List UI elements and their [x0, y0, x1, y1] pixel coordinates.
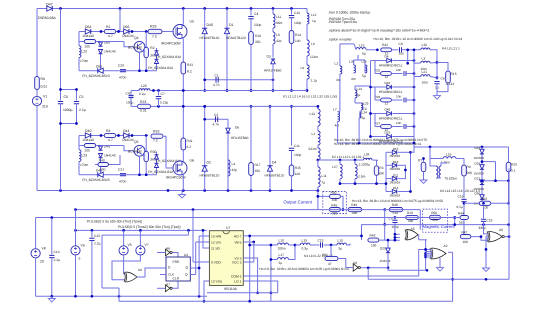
svg-text:HFA06TB120: HFA06TB120: [200, 174, 220, 178]
svg-text:C25: C25: [487, 219, 493, 223]
svg-text:D5E60-06A: D5E60-06A: [38, 16, 56, 20]
svg-text:0.01: 0.01: [140, 109, 147, 113]
svg-text:U7: U7: [226, 226, 230, 230]
svg-text:200: 200: [85, 149, 91, 153]
svg-text:Q: Q: [185, 273, 188, 277]
svg-text:10n: 10n: [399, 52, 405, 56]
svg-text:BCW60B: BCW60B: [128, 46, 142, 50]
svg-text:IR2110A: IR2110A: [224, 287, 238, 291]
svg-text:L28: L28: [364, 153, 370, 157]
svg-text:FH_BZX884-B18: FH_BZX884-B18: [148, 170, 173, 174]
svg-text:D66: D66: [123, 25, 129, 29]
svg-text:170m: 170m: [80, 59, 89, 63]
svg-text:HFA06TB120: HFA06TB120: [265, 174, 285, 178]
svg-text:L30: L30: [422, 43, 428, 47]
svg-text:50K: 50K: [378, 171, 385, 175]
svg-text:100m: 100m: [278, 247, 286, 251]
svg-text:1N4148: 1N4148: [82, 138, 94, 142]
svg-text:0.2µ: 0.2µ: [139, 92, 146, 96]
svg-text:PRE: PRE: [173, 260, 181, 264]
svg-text:C13: C13: [318, 238, 324, 242]
svg-text:10n: 10n: [396, 95, 401, 99]
svg-text:FH_BZX585-B3V5: FH_BZX585-B3V5: [82, 178, 109, 182]
svg-text:L11: L11: [321, 174, 326, 178]
svg-text:200: 200: [100, 167, 106, 171]
svg-text:100: 100: [295, 39, 301, 43]
svg-text:L1: L1: [312, 132, 316, 136]
svg-text:L2: L2: [335, 62, 339, 66]
svg-text:R7: R7: [418, 159, 422, 163]
svg-text:D6: D6: [235, 126, 239, 130]
svg-text:HFA08NC48C1L: HFA08NC48C1L: [379, 63, 403, 67]
svg-text:1N4148: 1N4148: [380, 259, 391, 263]
svg-text:R1: R1: [106, 25, 111, 29]
svg-text:47: 47: [328, 262, 332, 266]
svg-text:L3: L3: [422, 57, 426, 61]
svg-text:A6: A6: [166, 247, 170, 251]
svg-text:2.2µ: 2.2µ: [94, 242, 101, 246]
svg-text:5µ: 5µ: [357, 93, 361, 97]
svg-text:9 VDD: 9 VDD: [211, 260, 221, 264]
svg-text:C21: C21: [118, 168, 124, 172]
svg-text:13 VSS: 13 VSS: [211, 279, 223, 283]
svg-text:4.7n: 4.7n: [213, 83, 220, 87]
svg-text:R14: R14: [295, 33, 301, 37]
svg-text:C11: C11: [294, 144, 300, 148]
svg-text:CLR: CLR: [173, 277, 180, 281]
svg-text:R45: R45: [331, 203, 337, 207]
svg-text:5µ: 5µ: [362, 74, 366, 78]
svg-text:1N5819: 1N5819: [389, 167, 400, 171]
svg-text:0.01: 0.01: [41, 85, 48, 89]
svg-text:.options abstol=1e-9 chgtol=1e: .options abstol=1e-9 chgtol=1e-9 maxstep…: [328, 29, 429, 33]
svg-text:L24: L24: [362, 111, 368, 115]
svg-text:COM 2: COM 2: [231, 274, 242, 278]
svg-text:HFA06TB120: HFA06TB120: [226, 36, 246, 40]
svg-text:R2: R2: [150, 46, 154, 50]
svg-text:Q: Q: [186, 266, 189, 270]
svg-text:1N4148: 1N4148: [104, 50, 116, 54]
svg-text:PULSE(0 5 {Tons2} 50n 50n {Ton: PULSE(0 5 {Tons2} 50n 50n {Ton} {Tpw}): [118, 225, 181, 229]
svg-text:1.1302µ: 1.1302µ: [359, 162, 371, 166]
svg-text:1000µ: 1000µ: [63, 108, 73, 112]
svg-text:VCC 3: VCC 3: [232, 260, 242, 264]
svg-text:400: 400: [352, 211, 358, 215]
svg-text:L14: L14: [357, 87, 363, 91]
svg-text:D21: D21: [393, 173, 399, 177]
svg-text:V5: V5: [128, 243, 132, 247]
svg-text:R16: R16: [255, 34, 261, 38]
svg-text:C3: C3: [79, 95, 84, 99]
svg-text:K4 L3 L21 1: K4 L3 L21 1: [442, 47, 460, 51]
svg-text:L19: L19: [302, 238, 308, 242]
svg-text:1N4148: 1N4148: [104, 154, 116, 158]
svg-text:L13: L13: [310, 112, 316, 116]
svg-text:1N4148: 1N4148: [122, 34, 134, 38]
svg-text:A3: A3: [353, 261, 357, 265]
svg-text:L6: L6: [301, 66, 305, 70]
svg-text:V1: V1: [43, 95, 47, 99]
svg-text:L11: L11: [276, 15, 281, 19]
svg-text:11 SD: 11 SD: [211, 246, 221, 250]
svg-text:D40: D40: [85, 129, 91, 133]
svg-text:R3: R3: [379, 166, 383, 170]
svg-text:100µ: 100µ: [126, 101, 134, 105]
svg-text:IRG4PC50W: IRG4PC50W: [161, 41, 181, 45]
svg-text:R10: R10: [407, 211, 413, 215]
svg-text:12 LIN: 12 LIN: [211, 240, 221, 244]
svg-text:C1: C1: [215, 74, 219, 78]
svg-text:1N5819: 1N5819: [389, 154, 400, 158]
svg-text:121m: 121m: [310, 55, 319, 59]
svg-text:4m: 4m: [335, 124, 340, 128]
svg-text:R11: R11: [187, 63, 193, 67]
svg-text:4.7n: 4.7n: [213, 123, 220, 127]
svg-text:D47: D47: [46, 3, 53, 7]
svg-text:D1: D1: [229, 23, 234, 27]
svg-text:L12: L12: [311, 13, 317, 17]
svg-text:BCW60B: BCW60B: [128, 150, 142, 154]
svg-text:L15: L15: [359, 44, 365, 48]
svg-text:100: 100: [295, 172, 301, 176]
svg-text:D16: D16: [393, 160, 399, 164]
svg-text:FH_BZX585-B5V3: FH_BZX585-B5V3: [82, 74, 109, 78]
svg-text:R23: R23: [140, 100, 146, 104]
svg-text:L7: L7: [333, 108, 337, 112]
svg-text:310: 310: [42, 105, 48, 109]
svg-text:Output Current: Output Current: [284, 200, 313, 205]
svg-text:C10: C10: [294, 11, 300, 15]
svg-text:100p: 100p: [294, 21, 302, 25]
svg-text:D16: D16: [475, 161, 481, 165]
svg-text:FH_BZX884-B18: FH_BZX884-B18: [156, 55, 181, 59]
svg-text:Magnetic Current: Magnetic Current: [423, 224, 456, 229]
svg-text:1N5819: 1N5819: [474, 156, 485, 160]
svg-text:170m: 170m: [80, 163, 89, 167]
svg-text:K2 L11 L12 L13 L29 1: K2 L11 L12 L13 L29 1: [332, 155, 364, 159]
svg-text:C2: C2: [214, 113, 218, 117]
svg-text:5.1: 5.1: [511, 168, 516, 172]
svg-text:100p: 100p: [294, 153, 302, 157]
svg-text:R29: R29: [150, 25, 156, 29]
svg-text:D2: D2: [207, 161, 212, 165]
svg-text:R22: R22: [481, 197, 487, 201]
svg-text:A5: A5: [499, 228, 503, 232]
svg-text:R48: R48: [392, 203, 398, 207]
svg-text:12: 12: [385, 75, 389, 79]
svg-text:A2: A2: [444, 244, 448, 248]
svg-text:50K: 50K: [467, 171, 474, 175]
svg-text:0.1µ: 0.1µ: [457, 205, 463, 209]
svg-text:U5: U5: [190, 20, 194, 24]
svg-text:8.2: 8.2: [187, 70, 192, 74]
svg-text:Hc=10, Bm .39 Br=.10 A=0.00068: Hc=10, Bm .39 Br=.10 A=0.00068 Lm=0.148 …: [374, 37, 463, 41]
svg-text:HFA08NC48C1L: HFA08NC48C1L: [379, 116, 403, 120]
svg-text:A4: A4: [184, 253, 188, 257]
svg-text:2.2µ: 2.2µ: [79, 108, 86, 112]
svg-text:5: 5: [79, 257, 81, 261]
svg-text:L23: L23: [82, 154, 88, 158]
svg-text:L21: L21: [422, 70, 428, 74]
svg-text:Q5: Q5: [134, 140, 139, 144]
svg-text:R15: R15: [295, 166, 301, 170]
svg-text:100: 100: [332, 198, 338, 202]
svg-text:L25: L25: [363, 102, 369, 106]
svg-text:C7: C7: [161, 92, 165, 96]
svg-text:U6: U6: [190, 159, 194, 163]
svg-text:C9: C9: [399, 42, 403, 46]
svg-text:K1 L1 L2 L4 L6 L8 L31 L32 L35: K1 L1 L2 L4 L6 L8 L31 L32 L35 L2x5: [283, 95, 337, 99]
svg-text:200: 200: [332, 211, 338, 215]
svg-text:Q4: Q4: [134, 36, 139, 40]
svg-text:D15: D15: [393, 147, 399, 151]
svg-text:2.2µ: 2.2µ: [54, 258, 61, 262]
svg-text:350: 350: [255, 169, 261, 173]
svg-text:0.3µ: 0.3µ: [302, 247, 308, 251]
svg-text:2µ: 2µ: [279, 261, 283, 265]
svg-text:1N4148: 1N4148: [122, 138, 134, 142]
svg-text:HO 7: HO 7: [234, 234, 242, 238]
svg-text:1N5819: 1N5819: [389, 181, 400, 185]
svg-text:1.76m: 1.76m: [441, 160, 450, 164]
svg-text:C29: C29: [118, 64, 124, 68]
svg-text:R15: R15: [451, 72, 457, 76]
svg-text:400: 400: [408, 219, 414, 223]
svg-text:1µ: 1µ: [312, 19, 316, 23]
svg-text:V8: V8: [42, 247, 46, 251]
svg-text:12: 12: [385, 102, 389, 106]
svg-text:470n: 470n: [119, 180, 127, 184]
svg-text:2.5m: 2.5m: [358, 174, 366, 178]
svg-text:220p: 220p: [254, 23, 262, 27]
svg-text:4m: 4m: [351, 77, 356, 81]
svg-text:A8: A8: [138, 268, 142, 272]
svg-text:921m: 921m: [309, 147, 318, 151]
svg-text:Hc=13, Bm .39 Br=.10 A=0.00002: Hc=13, Bm .39 Br=.10 A=0.00002 Lm=0.05 L…: [334, 142, 422, 146]
svg-text:R41: R41: [187, 139, 193, 143]
svg-text:L22: L22: [82, 50, 88, 54]
svg-text:R21: R21: [322, 253, 328, 257]
svg-text:200: 200: [85, 45, 91, 49]
svg-text:R47: R47: [462, 230, 468, 234]
svg-text:8.2: 8.2: [187, 145, 192, 149]
svg-text:V7: V7: [145, 243, 149, 247]
svg-text:L8: L8: [311, 42, 315, 46]
svg-text:C16: C16: [458, 195, 464, 199]
svg-text:R20: R20: [511, 162, 517, 166]
svg-text:R8: R8: [467, 165, 471, 169]
svg-text:HFA15FB60: HFA15FB60: [231, 136, 249, 140]
svg-text:R49: R49: [351, 203, 357, 207]
svg-text:L9: L9: [276, 33, 280, 37]
svg-text:7.2: 7.2: [153, 139, 158, 143]
svg-text:V9: V9: [81, 244, 85, 248]
svg-text:20: 20: [40, 260, 44, 264]
svg-text:4.7: 4.7: [108, 34, 113, 38]
svg-text:D15: D15: [385, 131, 391, 135]
svg-text:FH_BZX884-B18: FH_BZX884-B18: [148, 66, 173, 70]
svg-text:R9: R9: [41, 77, 45, 81]
svg-text:220: 220: [432, 218, 438, 222]
svg-text:VB 6: VB 6: [234, 240, 241, 244]
svg-text:R33: R33: [153, 130, 159, 134]
svg-text:R44: R44: [458, 212, 464, 216]
svg-text:R56: R56: [431, 211, 437, 215]
svg-text:R17: R17: [255, 163, 261, 167]
svg-text:4.7: 4.7: [108, 138, 113, 142]
svg-text:1N5819: 1N5819: [474, 172, 485, 176]
svg-text:R42: R42: [382, 43, 388, 47]
svg-text:L10: L10: [338, 238, 344, 242]
svg-text:.option noopiter: .option noopiter: [328, 37, 353, 41]
svg-text:10 HIN: 10 HIN: [211, 234, 222, 238]
svg-text:D20: D20: [380, 246, 386, 250]
svg-text:D18: D18: [475, 146, 481, 150]
svg-text:350: 350: [255, 40, 261, 44]
svg-text:PULSE(0 5 0u 50n 50n {Ton} {Tp: PULSE(0 5 0u 50n 50n {Ton} {Tpw}): [87, 219, 142, 223]
svg-text:7µ: 7µ: [321, 181, 325, 185]
svg-text:1N4148: 1N4148: [82, 34, 94, 38]
svg-text:510: 510: [393, 211, 399, 215]
svg-text:100: 100: [463, 240, 469, 244]
svg-text:L17: L17: [279, 253, 285, 257]
svg-text:LO 1: LO 1: [234, 279, 241, 283]
svg-text:1N5819: 1N5819: [389, 193, 400, 197]
svg-text:L27: L27: [332, 165, 338, 169]
svg-text:D64: D64: [85, 25, 91, 29]
svg-text:1.1µ: 1.1µ: [311, 79, 318, 83]
svg-text:A5: A5: [411, 227, 415, 231]
svg-text:.PARAM Tpw=0.6u: .PARAM Tpw=0.6u: [328, 20, 357, 24]
svg-text:HFA08NC48C1L: HFA08NC48C1L: [379, 90, 403, 94]
svg-text:96m: 96m: [276, 21, 283, 25]
svg-text:0.133: 0.133: [446, 82, 454, 86]
svg-text:D55: D55: [96, 64, 102, 68]
svg-text:D49: D49: [385, 108, 391, 112]
svg-text:0.22µ: 0.22µ: [160, 101, 168, 105]
svg-text:10m: 10m: [422, 81, 429, 85]
svg-text:.tran 0 1000u 1000u startup: .tran 0 1000u 1000u startup: [328, 11, 370, 15]
svg-text:L16: L16: [446, 153, 452, 157]
svg-text:R50: R50: [331, 190, 337, 194]
svg-text:K3 L14 L15 L16 L26 L2x 1.5: K3 L14 L15 L16 L26 L2x 1.5: [440, 189, 480, 193]
svg-text:A7: A7: [166, 282, 170, 286]
svg-text:C15: C15: [94, 234, 100, 238]
svg-text:75.625m: 75.625m: [445, 177, 458, 181]
svg-text:L18: L18: [279, 238, 285, 242]
svg-text:D44: D44: [123, 129, 129, 133]
svg-text:R43: R43: [370, 234, 376, 238]
svg-text:R4: R4: [106, 129, 111, 133]
svg-text:R40: R40: [99, 159, 105, 163]
svg-text:D4: D4: [272, 161, 277, 165]
svg-text:C14: C14: [54, 250, 60, 254]
svg-text:L4: L4: [232, 162, 236, 166]
svg-text:7.2: 7.2: [152, 35, 157, 39]
svg-text:D43: D43: [385, 81, 391, 85]
svg-text:C4: C4: [254, 12, 258, 16]
svg-text:D14: D14: [393, 186, 399, 190]
svg-text:5µ: 5µ: [362, 116, 366, 120]
svg-text:42p: 42p: [276, 39, 282, 43]
svg-text:D46: D46: [207, 23, 213, 27]
svg-text:5µ: 5µ: [362, 52, 366, 56]
svg-text:D3: D3: [267, 55, 271, 59]
svg-text:C6: C6: [64, 95, 69, 99]
svg-text:10n: 10n: [396, 68, 401, 72]
svg-text:100: 100: [371, 244, 377, 248]
svg-text:10n: 10n: [396, 121, 401, 125]
svg-text:D4: D4: [385, 55, 389, 59]
svg-text:D21: D21: [475, 177, 481, 181]
svg-text:R30: R30: [150, 150, 156, 154]
svg-text:330p: 330p: [479, 226, 486, 230]
svg-text:5µ: 5µ: [339, 247, 343, 251]
svg-text:Hc=13, Bm .39 Br=.10 A=0.00002: Hc=13, Bm .39 Br=.10 A=0.000024 Lm=0.05 …: [259, 267, 349, 271]
svg-text:C6: C6: [441, 77, 445, 81]
svg-text:HFA06TB120: HFA06TB120: [200, 36, 220, 40]
svg-text:470n: 470n: [119, 76, 127, 80]
svg-text:42p: 42p: [232, 168, 238, 172]
svg-text:L20: L20: [141, 84, 147, 88]
